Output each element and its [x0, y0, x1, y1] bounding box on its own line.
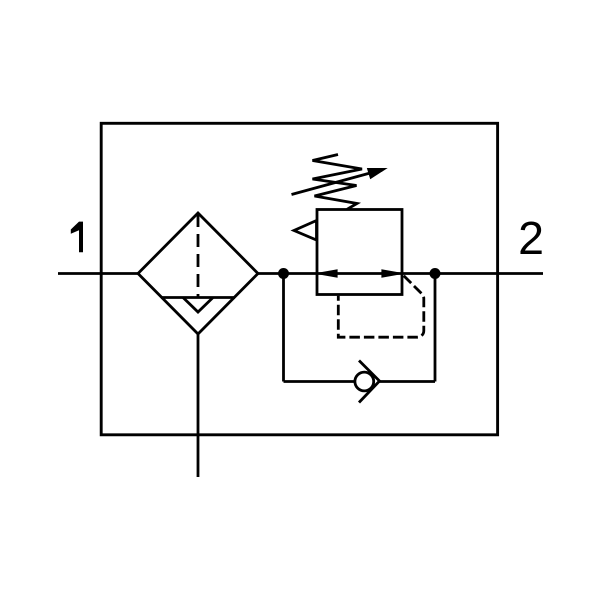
wire main flow line left [58, 272, 138, 275]
regulator R1 pilot dashed line [338, 275, 424, 338]
regulator R1 relief vent triangle [294, 221, 317, 241]
filter F1 sump line [161, 296, 235, 299]
svg-text:2: 2 [518, 212, 544, 264]
filter F1 diamond body [138, 213, 258, 334]
check valve V1 seat [359, 361, 380, 403]
regulator R1 spring [313, 155, 363, 210]
filter F1 element dashed line [197, 214, 200, 298]
check valve V1 ball [355, 372, 374, 391]
wire main flow line right [258, 272, 543, 275]
regulator R1 flow arrow left head [317, 270, 337, 277]
wire bypass bottom left [284, 380, 355, 383]
wire bypass left vertical [282, 274, 285, 382]
regulator R1 body [317, 210, 402, 295]
node junction dot right [430, 268, 441, 279]
filter F1 drain line [197, 334, 200, 477]
regulator R1 adjustment arrow head [368, 169, 387, 179]
wire bypass bottom right [380, 380, 436, 383]
regulator R1 adjustment arrow shaft [292, 173, 373, 195]
node junction dot left [278, 268, 289, 279]
wire bypass right vertical [434, 274, 437, 382]
regulator R1 flow arrow right head [382, 270, 402, 277]
enclosure box [101, 123, 497, 435]
filter F1 drain funnel triangle [183, 298, 213, 313]
port 1 label [71, 222, 83, 253]
